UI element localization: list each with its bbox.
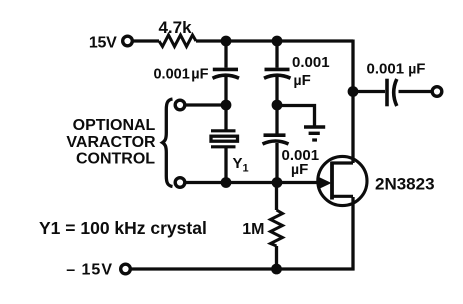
svg-text:0.001 µF: 0.001 µF (367, 61, 426, 78)
wire right vertical from top rail corner down to drain (351, 40, 354, 164)
terminal varactor top (175, 100, 185, 110)
svg-text:4.7k: 4.7k (158, 18, 192, 37)
wire top rail from 15V terminal to resistor (132, 39, 159, 42)
wire output tap to capacitor C4 (353, 90, 385, 93)
terminal varactor bottom (175, 178, 185, 188)
svg-text:– 15V: – 15V (66, 262, 113, 279)
node junction A2 (left column mid) (221, 100, 232, 111)
terminal output (432, 87, 442, 97)
wire capacitor C4 to output terminal (399, 90, 432, 93)
wire top rail from resistor to corner (196, 39, 353, 42)
svg-text:2N3823: 2N3823 (375, 175, 435, 194)
svg-text:0.001µF: 0.001µF (153, 67, 208, 83)
capacitor C3 0.001uF (middle column lower) (263, 105, 289, 183)
ground (304, 127, 325, 140)
node junction A top (after resistor) (221, 36, 232, 47)
wire source down to bottom rail (351, 197, 354, 271)
wire bottom rail (131, 267, 355, 270)
svg-text:VARACTOR: VARACTOR (66, 134, 156, 151)
svg-text:15V: 15V (89, 35, 117, 52)
wire varactor top terminal to junction A2 (186, 103, 224, 106)
svg-text:µF: µF (291, 161, 308, 178)
svg-text:OPTIONAL: OPTIONAL (73, 117, 156, 134)
resistor R2 1M vertical (271, 183, 283, 270)
capacitor C2 0.001uF (middle column upper) (264, 41, 291, 105)
svg-text:µF: µF (294, 72, 311, 89)
capacitor C1 0.001uF (left column) (213, 41, 240, 105)
wire gate line from varactor bottom terminal to JFET gate (186, 181, 317, 184)
terminal +15V (123, 36, 133, 46)
node junction gate-line right (272, 177, 283, 188)
node junction B2 (middle column mid) (272, 100, 283, 111)
node junction bottom rail (271, 264, 282, 275)
svg-text:0.001: 0.001 (292, 54, 330, 71)
transistor Q1 2N3823 JFET (318, 156, 368, 205)
resistor R1 4.7k zigzag (159, 35, 196, 47)
svg-text:1M: 1M (242, 221, 264, 238)
crystal Y1 (211, 105, 238, 183)
terminal -15V (121, 264, 131, 274)
svg-text:Y1 = 100 kHz crystal: Y1 = 100 kHz crystal (39, 218, 207, 238)
brace for optional varactor control (163, 99, 173, 187)
svg-text:CONTROL: CONTROL (76, 151, 155, 168)
wire from junction B2 to ground (277, 106, 315, 127)
capacitor C4 0.001uF output (387, 79, 397, 107)
node junction output tap (348, 86, 359, 97)
node junction B top (272, 36, 283, 47)
node junction gate-line left (221, 177, 232, 188)
